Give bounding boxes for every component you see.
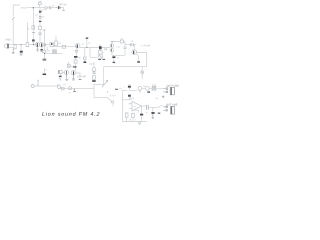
svg-text:1m,di: 1m,di: [20, 7, 27, 10]
svg-text:(+) 5.6R: (+) 5.6R: [77, 75, 86, 78]
svg-text:MIC1: MIC1: [6, 39, 13, 42]
svg-text:L 47 uH: L 47 uH: [142, 44, 151, 47]
svg-text:4.7uF: 4.7uF: [110, 95, 116, 97]
svg-text:Lion sound FM 4.2: Lion sound FM 4.2: [42, 112, 100, 118]
svg-text:R9 C: R9 C: [89, 64, 94, 66]
svg-text:BT 9V: BT 9V: [60, 3, 67, 6]
svg-text:OUT+LINE: OUT+LINE: [166, 85, 179, 88]
svg-text:OUT LINE: OUT LINE: [166, 104, 178, 107]
svg-text:C 47: C 47: [116, 47, 121, 49]
